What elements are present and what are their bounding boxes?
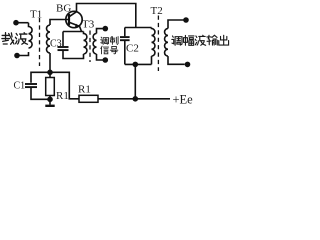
svg-text:T3: T3 (82, 19, 95, 31)
svg-text:BG: BG (56, 3, 71, 15)
wire: T2 secondary top to output upper terminal (168, 20, 184, 29)
node C junction dot (133, 96, 139, 102)
svg-text:R1: R1 (78, 84, 91, 96)
node: output upper terminal (183, 17, 189, 23)
transistor Q1 BG circle (66, 11, 82, 27)
svg-text:C1: C1 (14, 81, 26, 92)
transformer T3 core (89, 31, 91, 63)
svg-text:R1: R1 (56, 90, 69, 102)
wire: C1 bottom lead to ground rail (31, 88, 48, 99)
wire: C2 bottom lead (124, 41, 126, 64)
node: modulation input upper terminal (103, 26, 109, 32)
wire: tank bottom riser (134, 64, 136, 98)
wire: C3 top lead (62, 32, 64, 47)
wire: C2 top lead (124, 28, 126, 37)
wire: tank top rail (125, 27, 152, 29)
wire: T1 secondary bottom to node A (49, 53, 51, 78)
wire: carrier upper lead to T1 primary (16, 22, 29, 24)
wire: tank bottom rail (125, 63, 152, 65)
node: output lower terminal (185, 62, 191, 68)
resistor R1 body (46, 78, 55, 96)
transformer T3 secondary winding (93, 34, 96, 55)
capacitor C2 plates (120, 36, 130, 38)
node: carrier input upper terminal (13, 20, 19, 26)
svg-text:C3: C3 (50, 39, 62, 50)
transformer T2 secondary winding (165, 29, 168, 57)
resistor R2 body (labelled R1) (79, 95, 98, 102)
node D junction dot (133, 62, 139, 68)
node: carrier input lower terminal (14, 53, 20, 59)
transformer T2 primary winding (152, 28, 155, 57)
transistor BG emitter arrow (75, 24, 80, 27)
wire: T2 secondary bottom to output lower terminal (168, 56, 185, 64)
wire: emitter node horizontal (63, 31, 84, 33)
transistor BG emitter stroke (69, 22, 80, 26)
wire: R2 to supply rail (98, 98, 170, 100)
transformer T2 core (157, 16, 159, 72)
wire: collector riser and top rail to tank (77, 4, 136, 28)
label 载波 carrier input (2, 33, 28, 45)
wire: emitter lead down (80, 26, 82, 31)
node A junction dot (47, 70, 53, 76)
ground (49, 99, 51, 104)
wire: C3 bottom lead to T3 primary bottom (63, 51, 84, 59)
transistor BG collector stroke (69, 12, 77, 17)
label 调幅波输出 AM output (172, 35, 229, 45)
node: modulation input lower terminal (103, 57, 109, 63)
wire: node A to C1 top (31, 72, 50, 83)
svg-text:C2: C2 (126, 43, 139, 55)
capacitor C3 plates (58, 46, 69, 48)
transformer T3 primary winding (84, 32, 87, 55)
wire: T2 primary bottom lead (151, 56, 153, 64)
svg-text:T2: T2 (151, 5, 163, 17)
transformer T1 secondary winding (47, 25, 50, 53)
wire: R1 bottom lead (49, 96, 51, 100)
wire: T3 secondary bottom to modulation lower terminal (97, 54, 104, 60)
wire: T3 secondary top to modulation upper terminal (97, 29, 104, 34)
capacitor C1 plates (25, 83, 37, 85)
transformer T1 core (39, 18, 41, 66)
wire: T1 secondary top to transistor base (50, 20, 68, 26)
wire: node A to R2 (50, 72, 79, 99)
label 调制信号 modulation input (101, 37, 118, 54)
svg-text:T1: T1 (30, 9, 42, 21)
node B junction dot (47, 97, 53, 103)
svg-text:+Ee: +Ee (173, 93, 194, 107)
transformer T1 primary winding (29, 23, 33, 48)
transistor BG base bar (68, 14, 70, 25)
wire: T1 primary bottom lead to lower terminal (17, 52, 29, 56)
